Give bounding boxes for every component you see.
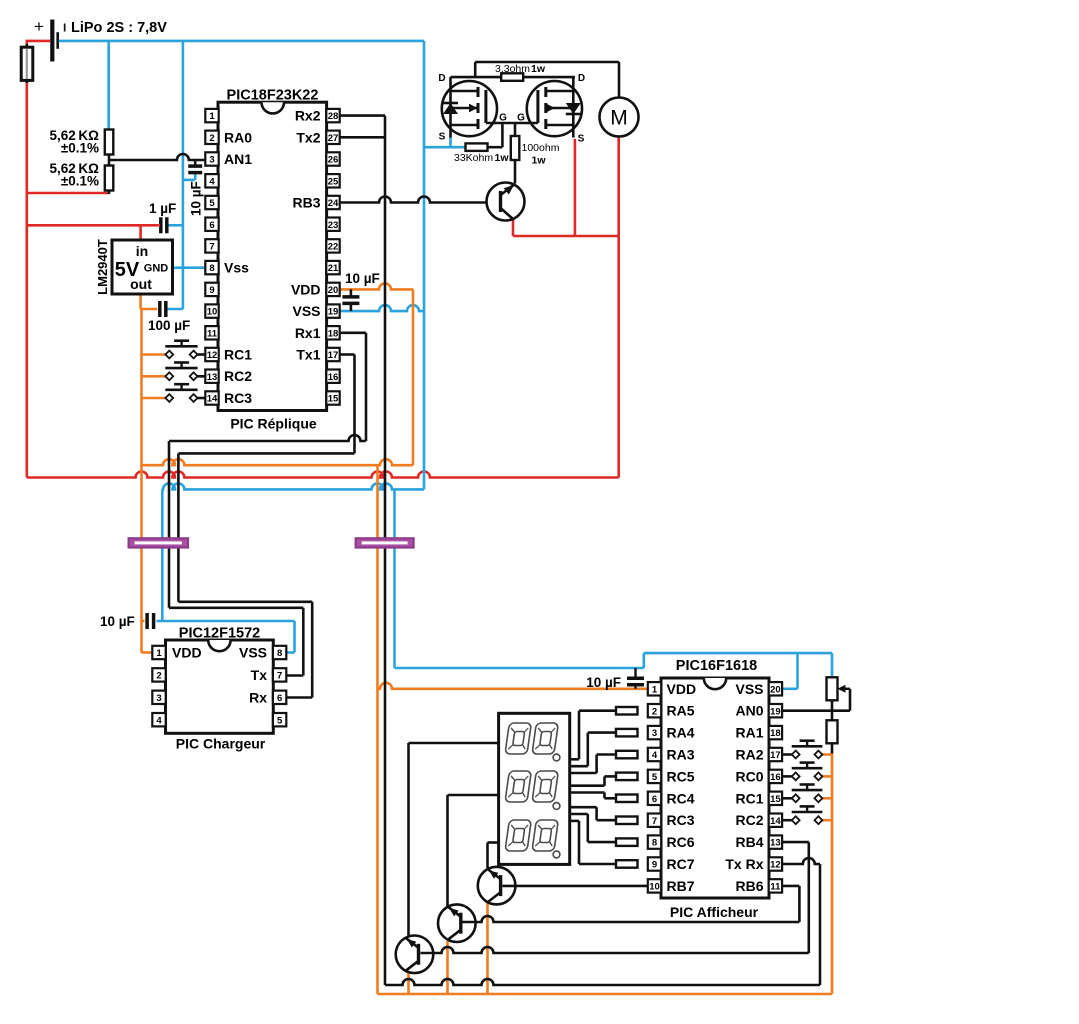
label U2 5V bbox=[115, 259, 140, 281]
svg-text:4: 4 bbox=[156, 715, 162, 726]
wire orange button stub RA2 bbox=[822, 753, 832, 756]
wire blue to gate resistor bbox=[424, 138, 466, 148]
svg-text:26: 26 bbox=[328, 155, 339, 166]
transistor Q5 bbox=[438, 904, 476, 942]
svg-text:3: 3 bbox=[652, 728, 657, 739]
label Q2 D bbox=[578, 73, 585, 84]
battery BT1 LiPo 2S bbox=[34, 17, 167, 62]
resistor R4 33Kohm bbox=[466, 143, 488, 151]
wire TxRx bus riser bbox=[819, 864, 822, 985]
svg-text:17: 17 bbox=[770, 750, 781, 761]
svg-text:1: 1 bbox=[652, 684, 658, 695]
potentiometer RV1 bbox=[827, 677, 838, 700]
svg-text:22: 22 bbox=[328, 242, 339, 253]
svg-text:RC0: RC0 bbox=[735, 768, 763, 784]
svg-text:6: 6 bbox=[277, 693, 282, 704]
label U2 LM2940T bbox=[95, 239, 110, 295]
svg-text:RC1: RC1 bbox=[224, 347, 252, 363]
svg-text:5: 5 bbox=[209, 198, 215, 209]
wire display segment fan bbox=[570, 711, 616, 864]
svg-text:1: 1 bbox=[209, 111, 215, 122]
wire RB3 to Q3 base bbox=[340, 197, 488, 203]
svg-text:RC2: RC2 bbox=[735, 812, 763, 828]
svg-text:9: 9 bbox=[209, 285, 214, 296]
svg-text:2: 2 bbox=[652, 706, 657, 717]
wire TxRx to pin12 bbox=[782, 858, 820, 864]
svg-text:VSS: VSS bbox=[735, 681, 763, 697]
wire Q6 collector bbox=[409, 743, 499, 937]
wire top rail to motor bbox=[475, 62, 619, 98]
motor M1 bbox=[600, 98, 639, 137]
wire orange bottom rail bbox=[378, 993, 833, 996]
capacitor C4 10uF bbox=[342, 289, 359, 311]
svg-text:Tx: Tx bbox=[251, 667, 268, 683]
wire orange riser bbox=[412, 289, 415, 465]
svg-text:6: 6 bbox=[209, 220, 214, 231]
svg-text:18: 18 bbox=[770, 728, 781, 739]
transistor Q3 bbox=[487, 183, 525, 221]
label U4 PIC Afficheur bbox=[670, 904, 759, 920]
svg-text:16: 16 bbox=[328, 372, 339, 383]
wire orange Q5 emitter bbox=[446, 941, 449, 994]
wire orange PIC12 vdd stub bbox=[142, 621, 153, 653]
svg-text:S: S bbox=[439, 132, 446, 143]
label U2 in bbox=[136, 243, 148, 259]
svg-text:1w: 1w bbox=[531, 63, 546, 75]
wire blue to PIC12 bbox=[161, 489, 164, 621]
svg-text:13: 13 bbox=[770, 838, 781, 849]
transistor Q6 bbox=[396, 936, 434, 974]
svg-text:RB7: RB7 bbox=[667, 878, 695, 894]
wire blue AN1 cap stub bbox=[183, 174, 195, 180]
wire orange to PIC16 vdd bbox=[376, 465, 379, 994]
transistor Q2 MOSFET bbox=[527, 77, 582, 138]
label C4 10uF bbox=[345, 271, 380, 286]
svg-text:Rx1: Rx1 bbox=[295, 325, 321, 341]
wire battery+ to fuse (red) bbox=[27, 41, 50, 45]
svg-text:Rx2: Rx2 bbox=[295, 108, 321, 124]
svg-text:6: 6 bbox=[652, 794, 657, 805]
svg-text:RA2: RA2 bbox=[735, 747, 763, 763]
7-segment display DS1 bbox=[499, 713, 570, 864]
svg-text:27: 27 bbox=[328, 133, 339, 144]
svg-text:M: M bbox=[610, 107, 628, 130]
svg-text:PIC Chargeur: PIC Chargeur bbox=[176, 736, 266, 752]
wire red Q3 emitter drop bbox=[512, 218, 515, 236]
U1 right pins 28-15 bbox=[326, 109, 339, 405]
U1 left pins 1-14 bbox=[205, 109, 218, 405]
svg-text:11: 11 bbox=[770, 882, 781, 893]
svg-text:4: 4 bbox=[209, 176, 215, 187]
svg-text:Tx2: Tx2 bbox=[296, 129, 320, 145]
capacitor C3 100uF bbox=[160, 301, 166, 317]
svg-text:15: 15 bbox=[328, 394, 339, 405]
label R4 bbox=[454, 152, 509, 164]
svg-text:100 µF: 100 µF bbox=[148, 318, 190, 333]
wire pot to R14 bbox=[831, 700, 834, 754]
svg-text:G: G bbox=[517, 113, 525, 124]
wire Rx1 path bbox=[169, 333, 366, 676]
wire red branch to divider bottom bbox=[27, 192, 109, 195]
svg-text:1: 1 bbox=[156, 648, 162, 659]
svg-text:3,3ohm: 3,3ohm bbox=[495, 63, 530, 75]
wire orange button stub RC1b bbox=[822, 797, 832, 800]
svg-text:RB4: RB4 bbox=[735, 834, 763, 850]
svg-text:RC2: RC2 bbox=[224, 368, 252, 384]
op-amp U4 PIC16F1618 body bbox=[661, 678, 769, 898]
svg-text:RC3: RC3 bbox=[224, 390, 252, 406]
wire orange button stub RC0 bbox=[822, 775, 832, 778]
wire red right riser bbox=[617, 137, 620, 478]
label R5 bbox=[522, 142, 560, 167]
resistor R3 3,3ohm bbox=[501, 73, 523, 81]
U1 right labels bbox=[291, 108, 321, 363]
wire orange PIC16 vdd stub bbox=[378, 683, 649, 689]
label U2 GND bbox=[144, 263, 169, 275]
resistor R5 100ohm bbox=[511, 136, 520, 160]
wire red bottom rail bbox=[27, 472, 619, 478]
svg-text:7: 7 bbox=[277, 671, 282, 682]
wire orange button stub RC2b bbox=[822, 819, 832, 822]
U4 left labels bbox=[667, 681, 697, 894]
wire RB4 to Q6 base bbox=[421, 842, 809, 953]
regulator U2 LM2940T box bbox=[112, 240, 173, 294]
svg-text:20: 20 bbox=[770, 684, 781, 695]
svg-text:RA0: RA0 bbox=[224, 129, 252, 145]
svg-text:18: 18 bbox=[328, 328, 339, 339]
svg-text:PIC18F23K22: PIC18F23K22 bbox=[227, 88, 319, 104]
label U1 title bbox=[227, 88, 319, 104]
svg-text:VDD: VDD bbox=[667, 681, 697, 697]
svg-text:RC5: RC5 bbox=[667, 768, 695, 784]
wire orange mid rail bbox=[142, 459, 414, 465]
svg-text:5: 5 bbox=[277, 715, 283, 726]
wire blue top rail bbox=[59, 40, 424, 43]
label Q1 D bbox=[438, 73, 445, 84]
wire blue PIC16 vss path bbox=[395, 653, 833, 689]
svg-text:G: G bbox=[499, 113, 507, 124]
svg-text:RB3: RB3 bbox=[292, 195, 320, 211]
svg-text:2: 2 bbox=[209, 133, 214, 144]
svg-text:10 µF: 10 µF bbox=[345, 271, 380, 286]
wire blue to PIC16 bbox=[393, 489, 396, 668]
svg-text:Tx Rx: Tx Rx bbox=[725, 856, 763, 872]
svg-text:in: in bbox=[136, 243, 148, 259]
svg-text:RC7: RC7 bbox=[667, 856, 695, 872]
svg-text:2: 2 bbox=[156, 671, 161, 682]
resistors R6-R13 segment bbox=[616, 707, 638, 868]
svg-text:1 µF: 1 µF bbox=[149, 201, 176, 216]
svg-text:S: S bbox=[578, 134, 585, 145]
label C2 1uF bbox=[149, 201, 176, 216]
svg-text:19: 19 bbox=[770, 706, 781, 717]
fuse F1 bbox=[21, 44, 33, 84]
label C3 100uF bbox=[148, 318, 190, 333]
wire R5 to Q3 bbox=[514, 160, 517, 184]
svg-text:±0.1%: ±0.1% bbox=[61, 174, 99, 189]
svg-text:VDD: VDD bbox=[291, 281, 321, 297]
wire motor bottom lead bbox=[617, 137, 620, 141]
wire orange VDD pin20 bbox=[340, 283, 414, 289]
wire divider junction to AN1 bbox=[109, 154, 207, 160]
push button SW2 RC2 bbox=[165, 363, 206, 381]
svg-text:12: 12 bbox=[770, 860, 781, 871]
svg-text:D: D bbox=[578, 73, 585, 84]
label Q1 S bbox=[439, 132, 446, 143]
wire red left rail bbox=[25, 83, 28, 478]
svg-text:7: 7 bbox=[652, 816, 657, 827]
svg-text:D: D bbox=[438, 73, 445, 84]
wire orange button stub RC1 bbox=[142, 353, 166, 356]
svg-text:21: 21 bbox=[328, 263, 339, 274]
U3 pins bbox=[152, 646, 286, 727]
wire blue 100uF link bbox=[167, 308, 183, 311]
label gate G G bbox=[499, 113, 525, 124]
resistor R2 5,62K bbox=[105, 166, 114, 191]
svg-text:RA1: RA1 bbox=[735, 725, 763, 741]
svg-text:15: 15 bbox=[770, 794, 781, 805]
wire Tx1 path bbox=[178, 355, 354, 698]
wire pot wiper to AN0 bbox=[782, 685, 850, 711]
svg-text:17: 17 bbox=[328, 350, 339, 361]
svg-text:RC1: RC1 bbox=[735, 790, 763, 806]
svg-text:Tx1: Tx1 bbox=[296, 347, 320, 363]
svg-text:+: + bbox=[34, 17, 44, 36]
label R1 bbox=[49, 128, 99, 156]
wire RB6 to Q5 base bbox=[463, 886, 800, 922]
resistor R14 bbox=[827, 720, 838, 743]
label U1 PIC Replique bbox=[230, 416, 317, 432]
wire orange button stub RC3 bbox=[142, 397, 166, 400]
svg-text:8: 8 bbox=[277, 648, 282, 659]
push button SW4 RA2 bbox=[782, 741, 822, 759]
push button SW7 RC2 bbox=[782, 806, 822, 824]
label U4 title bbox=[676, 658, 757, 674]
svg-text:12: 12 bbox=[207, 350, 218, 361]
wire Tx2 bbox=[340, 136, 386, 139]
svg-text:4: 4 bbox=[652, 750, 658, 761]
capacitor C6 10uF bbox=[627, 668, 644, 689]
svg-text:±0.1%: ±0.1% bbox=[61, 141, 99, 156]
wire red MOSFET Q2 source bbox=[574, 139, 577, 236]
U4 pins bbox=[648, 682, 782, 893]
wire orange Q6 emitter bbox=[407, 972, 410, 994]
svg-text:out: out bbox=[130, 276, 152, 292]
capacitor C5 10uF bbox=[147, 613, 154, 629]
svg-text:16: 16 bbox=[770, 772, 781, 783]
wire blue VSS pin19 bbox=[340, 305, 425, 311]
label C5 10uF bbox=[100, 614, 135, 629]
connector J2 bbox=[356, 538, 414, 547]
wire drain rail bbox=[451, 76, 575, 79]
wire Q5 collector bbox=[448, 795, 499, 906]
svg-text:VDD: VDD bbox=[172, 645, 202, 661]
wire red branch to regulator bbox=[27, 225, 157, 240]
svg-text:20: 20 bbox=[328, 285, 339, 296]
svg-text:PIC Afficheur: PIC Afficheur bbox=[670, 904, 759, 920]
svg-text:33Kohm: 33Kohm bbox=[454, 152, 493, 164]
svg-text:9: 9 bbox=[652, 860, 657, 871]
push button SW6 RC1 bbox=[782, 785, 822, 803]
wire orange regulator out bbox=[141, 294, 158, 309]
label U3 PIC Chargeur bbox=[176, 736, 266, 752]
wire Rx2 bbox=[340, 114, 386, 117]
wire blue PIC12 vss path bbox=[157, 621, 295, 653]
wire blue rail drop right bbox=[423, 41, 426, 490]
svg-text:7: 7 bbox=[209, 242, 214, 253]
svg-text:LM2940T: LM2940T bbox=[95, 239, 110, 295]
wire TxRx bus bottom bbox=[385, 979, 820, 985]
wire RB7 to Q4 base bbox=[503, 885, 649, 888]
label U2 out bbox=[130, 276, 152, 292]
svg-text:VSS: VSS bbox=[239, 645, 267, 661]
svg-text:RA3: RA3 bbox=[667, 747, 695, 763]
wire Q4 collector bbox=[488, 843, 499, 869]
svg-text:23: 23 bbox=[328, 220, 339, 231]
wire red motor/source link bbox=[513, 235, 619, 238]
transistor Q4 bbox=[478, 867, 516, 905]
transistor Q1 MOSFET bbox=[442, 77, 497, 138]
wire orange button stub RC2 bbox=[142, 375, 166, 378]
U4 right labels bbox=[725, 681, 763, 894]
wire orange right riser bbox=[831, 753, 834, 994]
svg-text:GND: GND bbox=[144, 263, 169, 275]
wire orange Q4 emitter bbox=[486, 903, 489, 994]
svg-text:19: 19 bbox=[328, 307, 339, 318]
connector J1 bbox=[129, 538, 188, 547]
label C1 10uF bbox=[189, 181, 204, 216]
svg-text:PIC16F1618: PIC16F1618 bbox=[676, 658, 757, 674]
svg-text:3: 3 bbox=[156, 693, 161, 704]
wire gate bus bbox=[486, 123, 538, 147]
svg-text:PIC12F1572: PIC12F1572 bbox=[179, 626, 260, 642]
svg-text:10: 10 bbox=[649, 882, 660, 893]
svg-text:10: 10 bbox=[207, 307, 218, 318]
svg-text:10 µF: 10 µF bbox=[100, 614, 135, 629]
svg-text:8: 8 bbox=[652, 838, 657, 849]
push button SW5 RC0 bbox=[782, 763, 822, 781]
svg-text:28: 28 bbox=[328, 111, 339, 122]
svg-text:3: 3 bbox=[209, 155, 214, 166]
label Q2 S bbox=[578, 134, 585, 145]
wire blue bottom rail bbox=[162, 483, 424, 489]
svg-text:10 µF: 10 µF bbox=[189, 181, 204, 216]
svg-text:RB6: RB6 bbox=[735, 878, 763, 894]
svg-text:11: 11 bbox=[207, 328, 218, 339]
U3 labels bbox=[172, 645, 267, 706]
svg-text:PIC Réplique: PIC Réplique bbox=[230, 416, 317, 432]
svg-text:25: 25 bbox=[328, 176, 339, 187]
svg-text:1w: 1w bbox=[495, 152, 510, 164]
label R3 bbox=[495, 63, 546, 75]
svg-text:14: 14 bbox=[207, 394, 218, 405]
capacitor C2 1uF bbox=[157, 217, 167, 233]
svg-text:8: 8 bbox=[209, 263, 214, 274]
svg-text:RC6: RC6 bbox=[667, 834, 695, 850]
svg-text:LiPo 2S : 7,8V: LiPo 2S : 7,8V bbox=[71, 20, 167, 36]
U1 left labels bbox=[224, 129, 252, 406]
wire TxRx bus vertical bbox=[384, 116, 387, 985]
wire orange left rail bbox=[140, 309, 143, 653]
wire blue Vss pin8 stub bbox=[173, 266, 207, 269]
svg-text:VSS: VSS bbox=[292, 303, 320, 319]
op-amp U1 PIC18F23K22 body bbox=[218, 102, 327, 410]
capacitor C1 10uF bbox=[188, 160, 202, 173]
op-amp U3 PIC12F1572 body bbox=[166, 640, 274, 733]
wire blue gnd rail bbox=[182, 41, 185, 309]
svg-text:AN1: AN1 bbox=[224, 151, 252, 167]
svg-text:14: 14 bbox=[770, 816, 781, 827]
wire blue divider top bbox=[107, 41, 110, 130]
svg-text:100ohm: 100ohm bbox=[522, 142, 560, 154]
svg-text:RA5: RA5 bbox=[667, 703, 695, 719]
svg-text:10 µF: 10 µF bbox=[586, 675, 621, 690]
push button SW3 RC3 bbox=[165, 384, 206, 402]
svg-text:AN0: AN0 bbox=[735, 703, 763, 719]
resistor R1 5,62K bbox=[105, 130, 114, 195]
svg-text:1w: 1w bbox=[532, 155, 547, 167]
wire blue 1uF link bbox=[168, 224, 183, 227]
svg-text:24: 24 bbox=[328, 198, 339, 209]
svg-text:RA4: RA4 bbox=[667, 725, 695, 741]
push button SW1 RC1 bbox=[165, 341, 206, 359]
svg-text:13: 13 bbox=[207, 372, 218, 383]
label C6 10uF bbox=[586, 675, 621, 690]
svg-text:5: 5 bbox=[652, 772, 658, 783]
label R2 bbox=[49, 161, 99, 189]
svg-text:RC4: RC4 bbox=[667, 790, 695, 806]
svg-text:RC3: RC3 bbox=[667, 812, 695, 828]
label U3 title bbox=[179, 626, 260, 642]
svg-text:Vss: Vss bbox=[224, 260, 249, 276]
svg-text:Rx: Rx bbox=[249, 689, 267, 705]
